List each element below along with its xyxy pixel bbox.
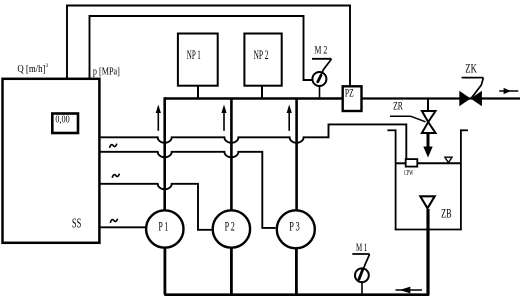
frequency converter SS [3, 79, 100, 243]
tank ZB left wall [395, 129, 397, 229]
svg-text:NP 2: NP 2 [254, 48, 269, 62]
wire line1 SS to CPW sensor with hops [100, 124, 407, 158]
wire line3 SS to pump P2 with hop [100, 184, 212, 230]
pressure vessel NP2 [244, 34, 281, 86]
wire line2 SS to pump P3 with hops [100, 152, 276, 228]
suction pipe bottom [164, 293, 429, 296]
svg-text:P 1: P 1 [159, 220, 169, 234]
wire inner loop SS to M2 [90, 16, 313, 80]
wire line4 SS to pump P1 [100, 226, 146, 228]
water level marker [445, 157, 452, 162]
tank ZB bottom [395, 229, 462, 231]
gauge M2 [312, 59, 332, 98]
svg-text:ZR: ZR [393, 99, 403, 113]
suction stem P2 [230, 248, 233, 295]
svg-text:P 3: P 3 [289, 220, 300, 234]
pump P2 [213, 210, 250, 247]
svg-text:PZ: PZ [345, 87, 354, 99]
svg-text:3: 3 [45, 63, 48, 69]
flow arrow riser 3 [287, 105, 292, 131]
tank ZB right wall [460, 129, 462, 229]
riser pipe P3 [295, 99, 298, 211]
suction stem P3 [295, 248, 298, 294]
svg-text:SS: SS [72, 215, 81, 230]
flow arrow riser 2 [221, 105, 226, 131]
pump P1 [146, 210, 183, 247]
svg-text:ZK: ZK [465, 61, 477, 76]
valve ZK [459, 78, 483, 107]
svg-text:0,00: 0,00 [55, 113, 70, 125]
suction stem P1 [163, 248, 166, 295]
suction strainer funnel [420, 196, 434, 208]
phase symbol 2 [112, 174, 119, 178]
manifold pipe [164, 97, 341, 99]
pressure vessel NP1 [178, 34, 218, 86]
svg-text:Q [m/h]: Q [m/h] [17, 64, 45, 75]
tank downpipe [426, 209, 429, 295]
outlet pipe [362, 97, 520, 99]
stem NP2 [261, 86, 263, 98]
level sensor CPW [406, 159, 418, 167]
svg-text:NP 1: NP 1 [187, 48, 201, 62]
svg-text:ZB: ZB [441, 207, 451, 221]
valve ZR branch [427, 100, 429, 112]
wire outer loop SS to PZ [67, 6, 350, 88]
water line [396, 162, 405, 164]
phase symbol 1 [110, 144, 117, 148]
riser pipe P1 [163, 97, 166, 211]
svg-text:M 2: M 2 [315, 45, 328, 57]
display box 0,00 [52, 114, 78, 134]
discharge arrow into tank [423, 133, 432, 158]
svg-text:P 2: P 2 [225, 220, 235, 234]
outlet flow arrow [499, 88, 518, 94]
pump P3 [277, 210, 315, 248]
flow arrow riser 1 [156, 105, 161, 131]
riser pipe P2 [230, 99, 233, 211]
flow sensor PZ [343, 86, 362, 111]
stem NP1 [197, 86, 199, 98]
valve ZR [390, 111, 436, 133]
tank ZB left lip [387, 129, 396, 131]
svg-text:p [MPa]: p [MPa] [93, 66, 120, 77]
flow arrow suction [396, 287, 423, 294]
tank ZB right lip [460, 129, 468, 131]
phase symbol 3 [110, 219, 117, 223]
gauge M1 [352, 254, 369, 294]
svg-text:CPW: CPW [404, 169, 413, 177]
svg-text:M 1: M 1 [356, 240, 367, 254]
